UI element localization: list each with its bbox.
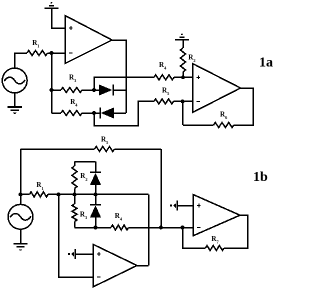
svg-text:1a: 1a [259,56,273,71]
svg-text:1b: 1b [253,170,268,185]
